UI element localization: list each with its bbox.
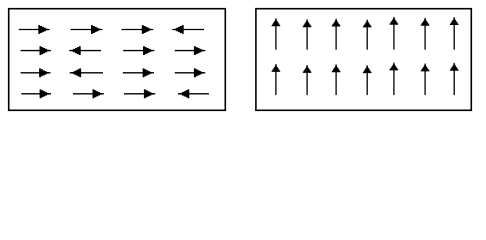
arrow left-box row3 col4 pointing right [175, 68, 206, 77]
arrow right-box row1 col7 pointing up [450, 17, 459, 50]
arrow right-box row2 col7 pointing up [450, 63, 459, 95]
arrow left-box row4 col2 pointing right [73, 89, 104, 98]
arrow left-box row1 col2 pointing right [71, 25, 103, 34]
arrow right-box row2 col1 pointing up [272, 64, 281, 95]
arrow left-box row4 col1 pointing right [21, 89, 51, 98]
arrow right-box row2 col2 pointing up [303, 65, 312, 95]
arrow left-box row3 col3 pointing right [123, 68, 154, 77]
arrow left-box row2 col3 pointing right [123, 46, 154, 55]
arrow right-box row1 col5 pointing up [390, 17, 399, 50]
arrow left-box row4 col3 pointing right [124, 89, 155, 98]
arrow right-box row1 col2 pointing up [303, 19, 312, 49]
arrow right-box row1 col3 pointing up [332, 19, 341, 50]
arrow right-box row2 col5 pointing up [390, 63, 399, 96]
arrow left-box row3 col2 pointing left [70, 68, 103, 77]
arrow right-box row2 col4 pointing up [363, 65, 372, 95]
arrow left-box row2 col1 pointing right [21, 46, 51, 55]
arrow left-box row1 col1 pointing right [19, 25, 50, 34]
right box (aligned magnetic domains) [256, 9, 471, 111]
arrow right-box row2 col3 pointing up [332, 64, 341, 95]
arrow left-box row2 col4 pointing right [175, 46, 206, 55]
arrow left-box row2 col2 pointing left [69, 46, 101, 55]
arrow left-box row3 col1 pointing right [21, 68, 51, 77]
arrow right-box row2 col6 pointing up [421, 64, 430, 96]
arrow right-box row1 col1 pointing up [272, 18, 281, 49]
arrow left-box row4 col4 pointing left [178, 89, 209, 98]
arrow right-box row1 col6 pointing up [421, 18, 430, 50]
arrow right-box row1 col4 pointing up [363, 20, 372, 50]
left box (randomly oriented magnetic domains) [9, 9, 226, 111]
arrow left-box row1 col3 pointing right [122, 25, 154, 34]
arrow left-box row1 col4 pointing left [172, 25, 204, 34]
